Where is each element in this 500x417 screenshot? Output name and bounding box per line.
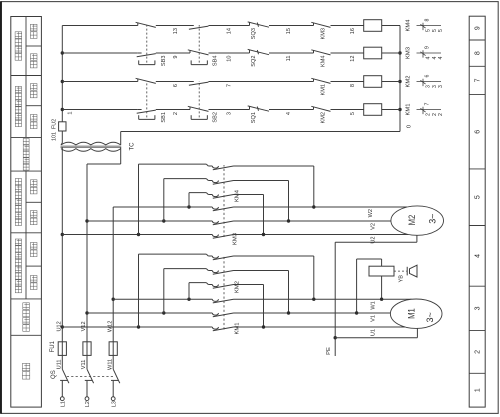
- table sub-label: 向前 (forward): [30, 54, 37, 68]
- wire L3 row: [112, 207, 114, 342]
- label SQ2: [251, 56, 257, 67]
- zone number 5: [475, 195, 482, 199]
- svg-text:M1: M1: [407, 308, 418, 319]
- svg-text:9: 9: [475, 26, 482, 30]
- svg-text:1: 1: [475, 388, 482, 392]
- node tap V-KM2: [162, 311, 165, 314]
- svg-text:6: 6: [425, 75, 431, 78]
- supply terminal L1: [60, 397, 66, 407]
- coil KM1: [364, 104, 382, 116]
- node tap W-KM2: [187, 298, 190, 301]
- pushbutton SB2 cap: [191, 115, 207, 119]
- wire number 7: [227, 84, 233, 87]
- node YB-W1: [380, 298, 383, 301]
- svg-text:KM4: KM4: [406, 19, 412, 32]
- svg-text:2: 2: [432, 113, 438, 116]
- wire dropper U (L1 phase): [62, 326, 212, 328]
- control bus 1: [61, 26, 63, 122]
- wire label U1: [371, 329, 377, 336]
- label KM1 (interlock): [321, 84, 327, 96]
- coil label KM1 below bus: [406, 104, 412, 116]
- wire number 2: [173, 112, 179, 115]
- wire control rung at x=335.5: [62, 81, 400, 83]
- coil label KM2 below bus: [406, 76, 412, 88]
- KM3 bank linkage (dashed): [223, 165, 225, 237]
- wire tap F2 to KM4 contact 2: [164, 179, 209, 221]
- node bus1-R3: [61, 51, 64, 54]
- wire L2 row: [86, 164, 88, 342]
- interlock NC contact KM2 on rung x=307.5: [311, 106, 330, 111]
- svg-text:9: 9: [173, 56, 179, 59]
- table label: 吊钩升降控制 (hook hoist control): [15, 86, 21, 126]
- svg-text:3~: 3~: [425, 312, 436, 323]
- label FU1: [50, 340, 56, 352]
- contactor KM2 main contact 2: [212, 271, 233, 275]
- svg-text:FU1: FU1: [50, 340, 56, 352]
- svg-text:1: 1: [68, 112, 74, 115]
- pushbutton SB2 NC contact (rung KM1): [188, 106, 209, 111]
- wire number 16: [350, 28, 356, 34]
- wire tap F1 to KM4 contact 3: [139, 164, 209, 234]
- contactor KM3 main contact 3: [212, 207, 233, 211]
- wire control rung at x=307.5: [62, 109, 400, 111]
- control transformer TC: [61, 142, 122, 151]
- wire tap U to KM2 contact 3: [139, 254, 209, 327]
- svg-text:8: 8: [475, 51, 482, 55]
- motor M2: [391, 206, 444, 235]
- node L1-F1 junction: [61, 233, 64, 236]
- svg-text:3: 3: [475, 306, 482, 310]
- supply terminal L3: [111, 397, 117, 407]
- svg-text:4: 4: [432, 56, 438, 59]
- svg-text:7: 7: [227, 84, 233, 87]
- wire label V11: [81, 360, 87, 370]
- pushbutton SB4 linkage (dashed): [198, 25, 200, 63]
- svg-text:3: 3: [432, 85, 438, 88]
- contactor KM4 main contact 3: [212, 166, 233, 170]
- wire PE to motor M1: [335, 328, 417, 337]
- svg-text:0: 0: [407, 125, 413, 128]
- contactor KM1 main contact 1: [212, 327, 233, 331]
- contact cross-reference for KM3: [417, 46, 445, 59]
- label SQ3: [251, 28, 257, 39]
- brake coil YB: [369, 266, 394, 276]
- wire label U12: [57, 321, 63, 331]
- svg-text:V12: V12: [81, 321, 87, 331]
- node L2-DM junction: [85, 311, 88, 314]
- node merge M1-V: [287, 311, 290, 314]
- svg-text:5: 5: [425, 29, 431, 32]
- svg-text:TC: TC: [130, 142, 136, 151]
- wire number 6: [173, 84, 179, 87]
- KM1 bank linkage (dashed): [223, 255, 225, 330]
- svg-text:2: 2: [173, 112, 179, 115]
- node tap U-KM2: [137, 325, 140, 328]
- zone number 6: [475, 130, 482, 134]
- wire tap F3 to KM4 contact 1: [189, 193, 208, 207]
- table sub-label: 上升 (up): [30, 114, 37, 128]
- wire TC secondary to FU2: [61, 131, 62, 145]
- wire number 9: [173, 56, 179, 59]
- svg-text:KM3: KM3: [406, 47, 412, 59]
- svg-text:W2: W2: [368, 209, 374, 217]
- coil KM2: [364, 76, 382, 88]
- svg-text:15: 15: [286, 28, 292, 34]
- svg-text:KM2: KM2: [321, 112, 327, 124]
- fuse FU1 pole 2: [83, 342, 91, 356]
- brake shoe symbol: [407, 265, 417, 277]
- fuse FU1 pole 1: [58, 342, 66, 356]
- wire label W2: [368, 209, 374, 217]
- wire number 8: [350, 84, 356, 87]
- svg-text:SB4: SB4: [213, 56, 219, 67]
- svg-text:7: 7: [425, 103, 431, 106]
- label KM4: [235, 189, 241, 202]
- table label: 电源 (power): [22, 363, 29, 379]
- svg-text:5: 5: [432, 29, 438, 32]
- supply terminal L2: [85, 397, 91, 407]
- contactor KM4 main contact 2: [212, 181, 233, 185]
- wire feed F3 (L3 to KM3 contact 3): [113, 206, 212, 208]
- svg-text:4: 4: [286, 112, 292, 115]
- svg-text:L3: L3: [111, 401, 117, 407]
- node merge M1-W: [312, 298, 315, 301]
- svg-text:V1: V1: [371, 315, 377, 322]
- table sub-label: 向后 (backward): [30, 24, 37, 38]
- svg-text:9: 9: [425, 46, 431, 49]
- wire L2 to transformer primary bottom: [87, 148, 121, 164]
- svg-text:SB3: SB3: [161, 56, 167, 67]
- node tap F3-KM4: [187, 205, 190, 208]
- node merge M2-U: [262, 233, 265, 236]
- svg-text:KM1: KM1: [321, 84, 327, 96]
- fuse FU1 pole 3: [109, 342, 117, 356]
- pushbutton SB3 cap: [139, 60, 155, 64]
- zone number 7: [475, 78, 482, 82]
- contactor KM3 main contact 1: [212, 235, 233, 239]
- svg-text:W12: W12: [107, 321, 113, 333]
- wire number 10: [227, 56, 233, 62]
- pushbutton SB2 NO contact (rung KM2): [189, 82, 209, 86]
- svg-text:2: 2: [438, 113, 444, 116]
- svg-text:4: 4: [475, 254, 482, 258]
- svg-text:PE: PE: [326, 347, 332, 355]
- contactor KM4 main contact 1: [212, 195, 233, 199]
- svg-text:4: 4: [425, 56, 431, 59]
- function table: [11, 17, 42, 408]
- wire KM4 output 2 merge: [234, 181, 289, 222]
- svg-text:SQ2: SQ2: [251, 56, 257, 67]
- pushbutton SB4 cap: [191, 60, 207, 64]
- motor M1: [390, 299, 442, 328]
- label KM4 (interlock): [321, 56, 327, 68]
- svg-text:10: 10: [227, 56, 233, 62]
- table sub-label: 上升 (up): [30, 276, 37, 290]
- svg-text:2: 2: [425, 113, 431, 116]
- zone number 4: [475, 254, 482, 258]
- svg-text:5: 5: [475, 195, 482, 199]
- table sub-label: 向前 (forward): [30, 211, 37, 225]
- table label: 平移控制 (traverse control): [15, 32, 22, 60]
- QS linkage (dashed): [67, 375, 114, 377]
- pushbutton SB1 linkage (dashed): [146, 81, 148, 117]
- table label: 升降电动机及制动 (hoist motor & brake): [15, 239, 21, 293]
- limit switch SQ1 (rung KM1): [248, 106, 269, 111]
- svg-text:5: 5: [350, 112, 356, 115]
- table label: 控制变压器 (control transformer): [23, 139, 29, 171]
- wire KM2 output 2 merge: [234, 271, 289, 314]
- wire KM2 contact stubs: [208, 256, 212, 285]
- contactor KM2 main contact 1: [212, 285, 233, 289]
- label YB: [399, 275, 405, 283]
- node bus1-R1: [61, 108, 64, 111]
- coil label KM3 below bus: [406, 47, 412, 59]
- wire KM4 output 1 merge: [234, 195, 264, 235]
- pushbutton SB3 linkage (dashed): [146, 25, 148, 63]
- svg-text:L1: L1: [60, 401, 66, 407]
- label TC: [130, 142, 136, 151]
- YB armature link (dashed): [394, 270, 407, 272]
- zone number 9: [475, 26, 482, 30]
- pushbutton SB2 linkage (dashed): [198, 81, 200, 117]
- wire label U11: [57, 359, 63, 369]
- wire L1 row to transformer primary: [61, 148, 63, 342]
- svg-text:QS: QS: [51, 370, 57, 379]
- pushbutton SB4 NO contact (rung KM4): [189, 26, 209, 30]
- svg-text:SB2: SB2: [213, 112, 219, 123]
- wire number 11: [286, 56, 292, 62]
- svg-text:4: 4: [438, 56, 444, 59]
- label SB4: [213, 56, 219, 67]
- wire label V12: [81, 321, 87, 331]
- contactor KM1 main contact 2: [212, 313, 233, 317]
- wire dropper W (L3 phase): [113, 298, 212, 300]
- label SB1: [161, 112, 167, 123]
- label KM2: [235, 281, 241, 293]
- switch QS pole 2 (L2): [85, 356, 94, 397]
- coil KM3: [364, 47, 382, 59]
- wire KM4 output 3 merge: [234, 166, 314, 207]
- svg-text:V11: V11: [81, 360, 87, 370]
- contactor KM3 main contact 2: [212, 221, 233, 225]
- wire number 15: [286, 28, 292, 34]
- interlock NC contact KM3 on rung x=391.5: [311, 22, 330, 27]
- label PE: [326, 347, 332, 355]
- pushbutton SB4 NC contact (rung KM3): [188, 50, 209, 55]
- zone number strip: [469, 16, 485, 407]
- wire number 1: [68, 112, 74, 115]
- svg-text:U11: U11: [57, 359, 63, 369]
- pushbutton SB1 NO contact (rung KM1): [137, 110, 156, 114]
- svg-text:6: 6: [173, 84, 179, 87]
- node YB-V1: [355, 311, 358, 314]
- wire KM4 contact stubs: [208, 166, 212, 195]
- wire number 3: [227, 112, 233, 115]
- zone number 3: [475, 306, 482, 310]
- label SB3: [161, 56, 167, 67]
- label KM3: [233, 233, 239, 245]
- wire YB terminal to V1: [357, 259, 382, 313]
- svg-text:KM1: KM1: [406, 104, 412, 116]
- svg-text:M2: M2: [407, 215, 418, 226]
- interlock NC contact KM1 on rung x=335.5: [311, 78, 330, 83]
- svg-text:KM2: KM2: [235, 281, 241, 293]
- label 101 FU2: [51, 119, 57, 141]
- pushbutton SB3 NC contact (rung KM4): [136, 22, 156, 27]
- svg-text:14: 14: [227, 28, 233, 34]
- node PE-M1 tap: [334, 336, 337, 339]
- svg-text:8: 8: [350, 84, 356, 87]
- wire label V1: [371, 315, 377, 322]
- svg-text:3: 3: [227, 112, 233, 115]
- svg-text:2: 2: [475, 350, 482, 354]
- svg-text:SQ3: SQ3: [251, 28, 257, 39]
- table sub-label: 向后 (backward): [30, 180, 37, 194]
- wire number 4: [286, 112, 292, 115]
- table label: 短路保护 (short-circuit protection): [23, 303, 30, 332]
- node L1-DE junction: [61, 325, 64, 328]
- wire control rung at x=364.0: [62, 52, 400, 54]
- svg-text:3: 3: [438, 85, 444, 88]
- svg-text:FU2: FU2: [51, 119, 57, 129]
- wire label W1: [371, 301, 377, 309]
- limit switch SQ3 (rung KM4): [248, 22, 269, 27]
- wire feed F2 (L2 to KM3 contact 2): [87, 220, 212, 222]
- svg-text:L2: L2: [85, 401, 91, 407]
- node bus1-R2: [61, 80, 64, 83]
- contactor KM2 main contact 3: [212, 256, 233, 260]
- wire number 5: [350, 112, 356, 115]
- svg-text:V2: V2: [371, 223, 377, 230]
- node bus0-R2: [398, 80, 401, 83]
- svg-text:5: 5: [438, 29, 444, 32]
- svg-text:6: 6: [475, 130, 482, 134]
- svg-text:SB1: SB1: [161, 112, 167, 123]
- node merge M1-U: [262, 325, 265, 328]
- zone number 8: [475, 51, 482, 55]
- svg-text:8: 8: [425, 19, 431, 22]
- table sub-label: 下降 (down): [30, 84, 37, 98]
- zone number 2: [475, 350, 482, 354]
- svg-text:3~: 3~: [427, 213, 438, 224]
- node bus0-R1: [398, 108, 401, 111]
- svg-text:11: 11: [286, 56, 292, 62]
- label SQ1: [251, 112, 257, 123]
- node L3-DW junction: [112, 298, 115, 301]
- wire KM2 output 3 merge: [234, 256, 314, 299]
- svg-text:KM4: KM4: [235, 189, 241, 202]
- pushbutton SB1 NC contact (rung KM2): [136, 78, 156, 83]
- svg-text:SQ1: SQ1: [251, 112, 257, 123]
- svg-text:YB: YB: [399, 275, 405, 283]
- wire tap W to KM2 contact 1: [189, 283, 208, 300]
- wire tap V to KM2 contact 2: [164, 269, 209, 313]
- label KM1: [235, 323, 241, 335]
- coil label KM4 below bus: [406, 19, 412, 32]
- wire number 12: [350, 56, 356, 62]
- svg-text:12: 12: [350, 56, 356, 62]
- wire number 13: [173, 28, 179, 34]
- contact cross-reference for KM1: [417, 103, 445, 116]
- table sub-label: 下降 (down): [30, 243, 37, 257]
- switch QS pole 1 (L1): [60, 356, 69, 397]
- node merge M2-W: [312, 205, 315, 208]
- fuse FU2: [59, 122, 66, 131]
- svg-text:13: 13: [173, 28, 179, 34]
- wire TC secondary to 0 bus: [121, 132, 400, 145]
- coil KM4: [364, 20, 382, 32]
- node merge M2-V: [287, 219, 290, 222]
- label KM2 (interlock): [321, 112, 327, 124]
- wire control rung at x=391.5: [62, 25, 400, 27]
- wire KM3 outputs to motor M2: [234, 207, 409, 235]
- svg-text:KM2: KM2: [406, 76, 412, 88]
- wire KM2 output 1 merge: [234, 285, 264, 328]
- wire KM1 outputs to motor M1: [234, 299, 412, 327]
- interlock NC contact KM4 on rung x=364.0: [311, 50, 330, 55]
- wire dropper V (L2 phase): [87, 312, 212, 314]
- wire label V2: [371, 223, 377, 230]
- label 0: [407, 125, 413, 128]
- svg-text:KM4: KM4: [321, 56, 327, 68]
- wire YB terminal to W1: [381, 276, 383, 299]
- label SB2: [213, 112, 219, 123]
- wire feed F1 (L1 to KM3 contact 1): [62, 234, 212, 236]
- limit switch SQ2 (rung KM3): [248, 49, 269, 54]
- svg-text:U1: U1: [371, 329, 377, 336]
- switch QS pole 3 (L3): [111, 356, 120, 397]
- contact cross-reference for KM2: [417, 75, 445, 88]
- zone number 1: [475, 388, 482, 392]
- node tap F1-KM4: [137, 233, 140, 236]
- control bus 0: [399, 26, 401, 132]
- wire label U2: [371, 237, 377, 244]
- pushbutton SB3 NO contact (rung KM3): [137, 53, 156, 57]
- table label: 水平移动电动机 (traverse motor): [15, 179, 21, 226]
- node bus0-R3: [398, 51, 401, 54]
- svg-text:3: 3: [425, 85, 431, 88]
- node tap F2-KM4: [162, 219, 165, 222]
- contactor KM1 main contact 3: [212, 299, 233, 303]
- label KM3 (interlock): [321, 28, 327, 40]
- svg-text:KM3: KM3: [321, 28, 327, 40]
- wire number 14: [227, 28, 233, 34]
- node L2-F2 junction: [85, 219, 88, 222]
- svg-text:W11: W11: [107, 359, 113, 370]
- wire label W11: [107, 359, 113, 370]
- svg-text:101: 101: [51, 132, 57, 141]
- pushbutton SB1 cap: [139, 115, 155, 119]
- wire label W12: [107, 321, 113, 333]
- svg-text:KM1: KM1: [235, 323, 241, 335]
- label QS: [51, 370, 57, 379]
- svg-text:16: 16: [350, 28, 356, 34]
- contact cross-reference for KM4: [417, 19, 445, 32]
- svg-text:7: 7: [475, 78, 482, 82]
- wire PE: [335, 235, 417, 356]
- svg-text:W1: W1: [371, 301, 377, 309]
